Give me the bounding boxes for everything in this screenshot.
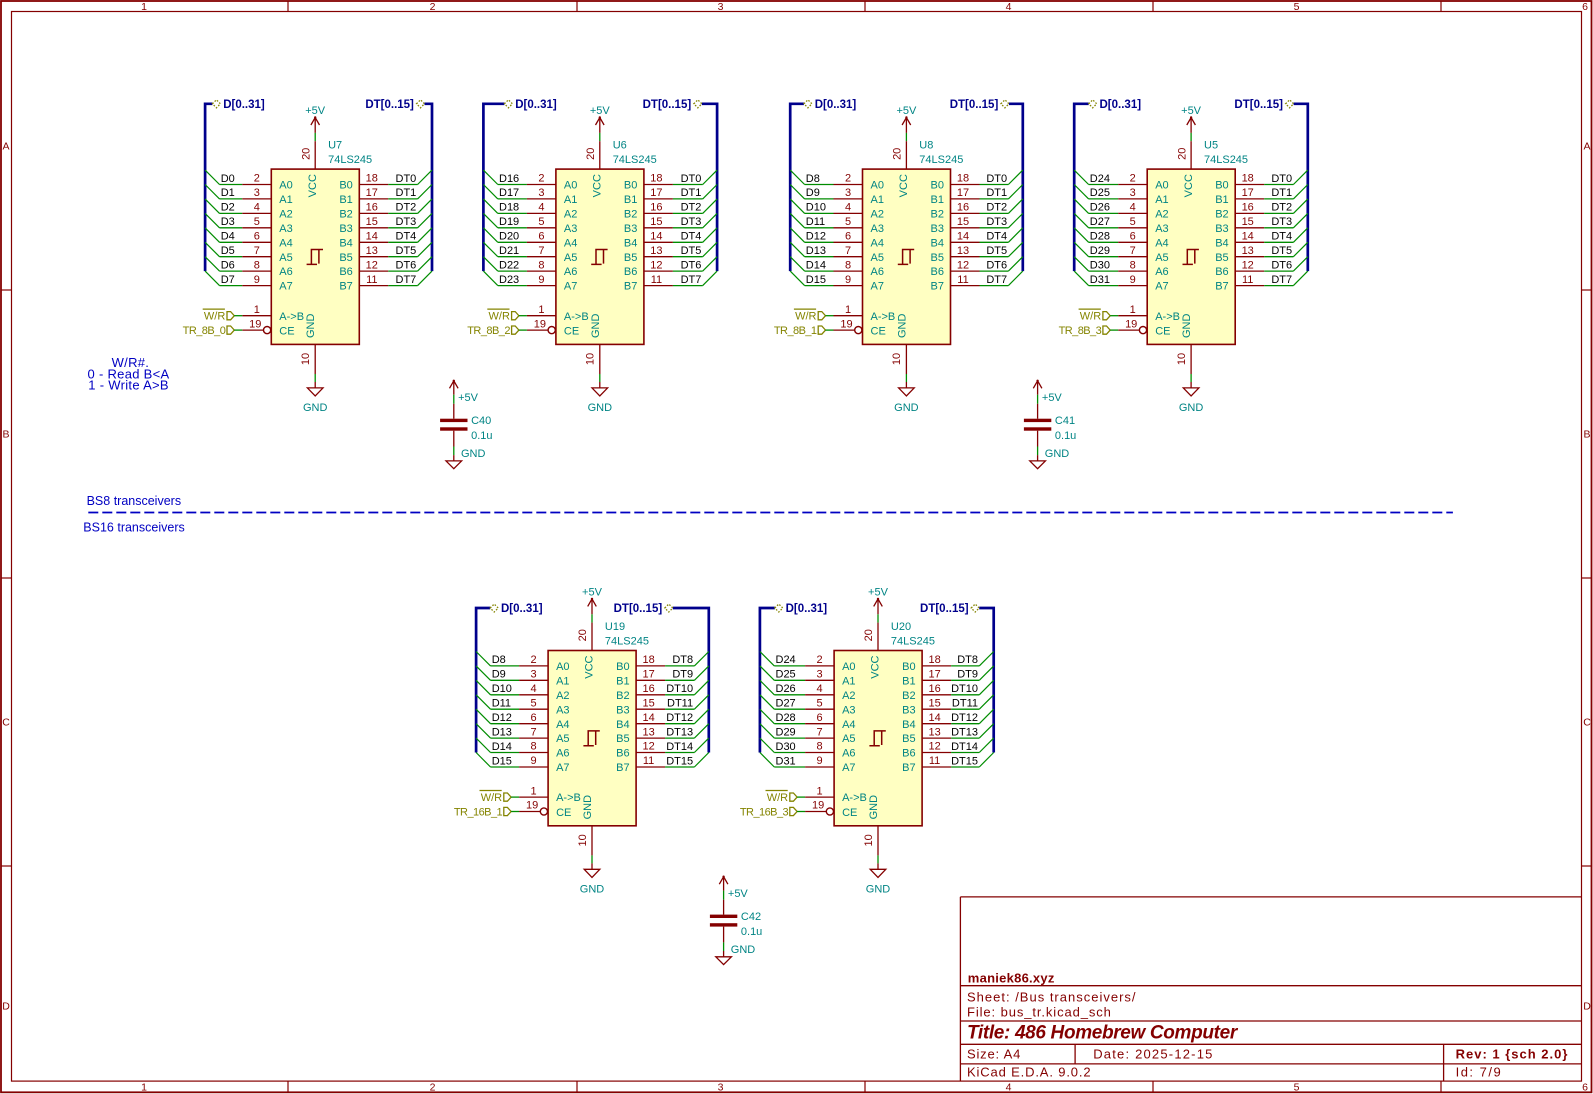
svg-text:19: 19 [534, 318, 546, 330]
svg-text:16: 16 [928, 683, 940, 695]
wire D28 [760, 709, 805, 724]
wire D23 [483, 271, 527, 286]
wire D21 [483, 242, 527, 257]
svg-text:B3: B3 [1215, 223, 1228, 235]
note: BS8 transceivers section label [87, 494, 181, 508]
svg-text:D2: D2 [221, 202, 235, 214]
svg-text:W/R: W/R [489, 311, 510, 323]
svg-text:0.1u: 0.1u [1055, 430, 1076, 442]
wire DT15 [951, 753, 994, 768]
wire D31 [760, 753, 805, 768]
ground GND (U8 pin 10) [891, 344, 918, 414]
pin U20.12 (B6) [902, 741, 951, 760]
svg-text:D15: D15 [806, 274, 826, 286]
separator dashed line [88, 512, 1453, 514]
svg-text:+5V: +5V [1042, 392, 1063, 404]
svg-text:maniek86.xyz: maniek86.xyz [968, 971, 1055, 986]
svg-text:D17: D17 [499, 187, 519, 199]
wire D14 [476, 738, 519, 753]
svg-text:15: 15 [650, 216, 662, 228]
wire D9 [476, 666, 519, 681]
svg-text:16: 16 [366, 202, 378, 214]
pin U8.19 (CE, inverted) [834, 318, 886, 337]
pin U7.13 (B5) [339, 245, 388, 264]
svg-text:A2: A2 [842, 690, 855, 702]
svg-text:B7: B7 [616, 762, 629, 774]
svg-text:A0: A0 [871, 180, 884, 192]
U19 reference and value labels [605, 621, 649, 647]
svg-text:GND: GND [305, 314, 317, 339]
svg-text:B7: B7 [339, 281, 352, 293]
svg-text:+5V: +5V [458, 392, 479, 404]
svg-text:DT3: DT3 [681, 216, 702, 228]
power +5V (C40) [450, 380, 479, 405]
svg-text:11: 11 [651, 274, 662, 286]
svg-text:DT13: DT13 [951, 726, 978, 738]
svg-text:B4: B4 [931, 237, 944, 249]
svg-text:A4: A4 [556, 719, 569, 731]
wire DT1 [673, 185, 717, 200]
svg-text:D0: D0 [221, 173, 235, 185]
wire DT5 [1264, 242, 1308, 257]
svg-text:3: 3 [1130, 187, 1136, 199]
title block size [967, 1047, 1021, 1062]
svg-text:+5V: +5V [728, 888, 749, 900]
svg-text:VCC: VCC [1183, 174, 1195, 197]
svg-text:B4: B4 [902, 719, 915, 731]
svg-text:17: 17 [957, 187, 969, 199]
svg-text:A2: A2 [564, 209, 577, 221]
svg-text:17: 17 [1242, 187, 1254, 199]
pin U20.18 (B0) [902, 654, 951, 673]
svg-text:4: 4 [845, 202, 851, 214]
wire DT3 [673, 213, 717, 228]
svg-text:U7: U7 [328, 140, 342, 152]
svg-text:B0: B0 [624, 180, 637, 192]
svg-text:A6: A6 [842, 748, 855, 760]
svg-text:GND: GND [461, 448, 486, 460]
svg-text:A3: A3 [871, 223, 884, 235]
svg-text:U8: U8 [919, 140, 933, 152]
svg-text:B1: B1 [1215, 194, 1228, 206]
pin U6.15 (B3) [624, 216, 673, 235]
svg-text:0.1u: 0.1u [471, 430, 492, 442]
svg-text:6: 6 [531, 712, 537, 724]
wire D1 [205, 185, 242, 200]
svg-text:DT7: DT7 [396, 274, 417, 286]
svg-text:A->B: A->B [279, 311, 304, 323]
svg-text:3: 3 [845, 187, 851, 199]
wire W/R to U7 pin 1 [234, 315, 242, 317]
hierarchical label TR_8B_2 [467, 325, 519, 337]
svg-text:8: 8 [817, 741, 823, 753]
svg-text:GND: GND [1179, 402, 1204, 414]
svg-text:10: 10 [1176, 353, 1188, 365]
svg-text:12: 12 [366, 259, 378, 271]
wire DT12 [951, 709, 994, 724]
title block date [1093, 1047, 1213, 1062]
pin U20.6 (A4) [805, 712, 855, 731]
U7 reference and value labels [328, 140, 372, 166]
pin U7.18 (B0) [339, 173, 388, 192]
wire D10 [476, 680, 519, 695]
pin U5.15 (B3) [1215, 216, 1264, 235]
svg-text:10: 10 [891, 353, 903, 365]
wire DT0 [980, 170, 1023, 185]
svg-text:19: 19 [812, 800, 824, 812]
pin U8.6 (A4) [834, 231, 884, 250]
svg-text:74LS245: 74LS245 [1204, 154, 1248, 166]
svg-text:D11: D11 [492, 698, 511, 710]
pin U20.5 (A3) [805, 697, 855, 716]
svg-text:B4: B4 [1215, 237, 1228, 249]
wire DT3 [1264, 213, 1308, 228]
svg-text:C40: C40 [471, 415, 491, 427]
svg-text:DT14: DT14 [666, 741, 693, 753]
svg-text:4: 4 [817, 683, 823, 695]
pin U6.12 (B6) [624, 259, 673, 278]
svg-text:DT2: DT2 [1271, 202, 1292, 214]
capacitor C42 0.1u [710, 900, 762, 943]
power +5V (C42) [719, 876, 748, 901]
svg-text:A1: A1 [279, 194, 292, 206]
svg-text:W/R: W/R [481, 792, 502, 804]
svg-text:GND: GND [303, 402, 328, 414]
title block border lines [960, 897, 1581, 1081]
wire TR_8B_1 to U8 pin 19 [826, 329, 834, 331]
pin U6.16 (B2) [624, 202, 673, 221]
svg-text:15: 15 [642, 697, 654, 709]
wire D25 [760, 666, 805, 681]
pin U5.6 (A4) [1118, 231, 1168, 250]
pin U20.11 (B7) [902, 755, 951, 774]
pin U7.14 (B4) [339, 231, 388, 250]
svg-text:Title: 486 Homebrew Computer: Title: 486 Homebrew Computer [967, 1023, 1239, 1044]
svg-text:2: 2 [845, 173, 851, 185]
wire D18 [483, 199, 527, 214]
svg-text:DT5: DT5 [1271, 245, 1292, 257]
svg-text:DT3: DT3 [1271, 216, 1292, 228]
svg-text:A2: A2 [1155, 209, 1168, 221]
svg-text:20: 20 [300, 148, 312, 160]
svg-text:1: 1 [817, 785, 823, 797]
wire +5V to C42 [723, 891, 725, 900]
svg-text:13: 13 [957, 245, 969, 257]
pin U5.7 (A5) [1118, 245, 1168, 264]
svg-text:16: 16 [650, 202, 662, 214]
power +5V (C41) [1033, 380, 1062, 405]
wire D6 [205, 257, 242, 272]
svg-text:20: 20 [1176, 148, 1188, 160]
wire DT7 [388, 271, 432, 286]
pin U19.7 (A5) [519, 726, 569, 745]
svg-text:A4: A4 [1155, 237, 1168, 249]
pin U20.3 (A1) [805, 669, 855, 688]
ground GND (U20 pin 10) [863, 826, 890, 896]
svg-text:1: 1 [845, 304, 851, 316]
svg-text:15: 15 [957, 216, 969, 228]
pin U5.18 (B0) [1215, 173, 1264, 192]
wire TR_8B_2 to U6 pin 19 [519, 329, 527, 331]
svg-text:16: 16 [642, 683, 654, 695]
svg-text:A3: A3 [842, 704, 855, 716]
svg-text:9: 9 [817, 755, 823, 767]
svg-text:A->B: A->B [842, 792, 867, 804]
svg-text:8: 8 [538, 259, 544, 271]
pin U6.14 (B4) [624, 231, 673, 250]
svg-text:DT13: DT13 [666, 726, 693, 738]
svg-text:D27: D27 [776, 698, 796, 710]
svg-text:B3: B3 [624, 223, 637, 235]
svg-text:B2: B2 [339, 209, 352, 221]
pin U19.1 (A-&gt;B dir) [519, 785, 581, 804]
svg-text:B5: B5 [616, 733, 629, 745]
svg-text:1: 1 [538, 304, 544, 316]
ground GND (U6 pin 10) [585, 344, 612, 414]
svg-text:A1: A1 [842, 675, 855, 687]
svg-text:DT2: DT2 [681, 202, 702, 214]
svg-text:D27: D27 [1090, 216, 1110, 228]
pin U6.4 (A2) [527, 202, 577, 221]
pin U19.11 (B7) [616, 755, 665, 774]
note: W/R# usage text [88, 355, 170, 393]
svg-text:B0: B0 [1215, 180, 1228, 192]
pin U20.2 (A0) [805, 654, 855, 673]
svg-text:B2: B2 [616, 690, 629, 702]
svg-text:A->B: A->B [1155, 311, 1180, 323]
svg-text:A0: A0 [564, 180, 577, 192]
power +5V (U19 pin 20 VCC) [577, 586, 602, 650]
hierarchical label W/R (U8) [794, 309, 826, 323]
wire C41 to GND [1037, 447, 1039, 456]
wire D8 [476, 652, 519, 667]
svg-text:D12: D12 [492, 712, 512, 724]
wire D5 [205, 242, 242, 257]
svg-text:TR_8B_0: TR_8B_0 [183, 325, 226, 337]
wire C40 to GND [453, 447, 455, 456]
svg-text:DT0: DT0 [986, 173, 1007, 185]
wire D13 [476, 724, 519, 739]
hierarchical label TR_8B_3 [1059, 325, 1111, 337]
svg-text:B7: B7 [931, 281, 944, 293]
wire D9 [790, 185, 833, 200]
svg-text:D25: D25 [1090, 187, 1110, 199]
svg-text:D[0..31]: D[0..31] [815, 99, 857, 111]
svg-text:2: 2 [254, 173, 260, 185]
svg-text:5: 5 [845, 216, 851, 228]
svg-text:DT14: DT14 [951, 741, 978, 753]
svg-text:14: 14 [366, 231, 378, 243]
wire DT0 [388, 170, 432, 185]
wire D31 [1074, 271, 1118, 286]
svg-text:D6: D6 [221, 259, 235, 271]
bus D[0..31] left of U19 [476, 603, 543, 752]
svg-text:A5: A5 [556, 733, 569, 745]
svg-text:DT15: DT15 [951, 755, 978, 767]
svg-text:11: 11 [957, 274, 968, 286]
wire W/R to U19 pin 1 [511, 796, 519, 798]
wire DT2 [1264, 199, 1308, 214]
svg-text:D10: D10 [492, 683, 512, 695]
pin U7.11 (B7) [339, 274, 388, 293]
svg-text:B6: B6 [902, 748, 915, 760]
svg-text:D21: D21 [499, 245, 519, 257]
wire D11 [476, 695, 519, 710]
svg-text:Size: A4: Size: A4 [967, 1047, 1021, 1062]
svg-text:7: 7 [817, 726, 823, 738]
svg-text:6: 6 [845, 231, 851, 243]
svg-text:D[0..31]: D[0..31] [1100, 99, 1142, 111]
svg-text:20: 20 [585, 148, 597, 160]
wire DT2 [388, 199, 432, 214]
pin U6.3 (A1) [527, 187, 577, 206]
capacitor C41 0.1u [1024, 404, 1076, 447]
svg-text:2: 2 [538, 173, 544, 185]
pin U20.16 (B2) [902, 683, 951, 702]
svg-text:GND: GND [590, 314, 602, 339]
svg-text:TR_8B_2: TR_8B_2 [467, 325, 510, 337]
pin U5.11 (B7) [1215, 274, 1264, 293]
wire D19 [483, 213, 527, 228]
svg-text:D11: D11 [806, 216, 825, 228]
pin U19.6 (A4) [519, 712, 569, 731]
pin U7.2 (A0) [242, 173, 292, 192]
svg-text:VCC: VCC [870, 655, 882, 678]
svg-text:A5: A5 [842, 733, 855, 745]
svg-text:10: 10 [577, 834, 589, 846]
svg-text:11: 11 [1242, 274, 1253, 286]
pin U8.16 (B2) [931, 202, 980, 221]
svg-text:GND: GND [580, 883, 605, 895]
bus D[0..31] left of U5 [1074, 99, 1141, 271]
svg-text:A0: A0 [1155, 180, 1168, 192]
pin U7.12 (B6) [339, 259, 388, 278]
pin U5.1 (A-&gt;B dir) [1118, 304, 1180, 323]
svg-text:B1: B1 [616, 675, 629, 687]
svg-text:DT[0..15]: DT[0..15] [1234, 99, 1283, 111]
svg-text:B5: B5 [902, 733, 915, 745]
svg-text:16: 16 [1242, 202, 1254, 214]
svg-text:TR_16B_3: TR_16B_3 [740, 807, 789, 819]
pin U7.4 (A2) [242, 202, 292, 221]
svg-text:GND: GND [588, 402, 613, 414]
pin U8.8 (A6) [834, 259, 884, 278]
svg-text:7: 7 [531, 726, 537, 738]
power +5V (U20 pin 20 VCC) [863, 586, 888, 650]
svg-text:D14: D14 [492, 741, 512, 753]
svg-text:A0: A0 [279, 180, 292, 192]
svg-text:2: 2 [531, 654, 537, 666]
pin U8.1 (A-&gt;B dir) [834, 304, 896, 323]
svg-text:1: 1 [531, 785, 537, 797]
svg-text:D[0..31]: D[0..31] [515, 99, 557, 111]
pin U6.8 (A6) [527, 259, 577, 278]
wire TR_8B_3 to U5 pin 19 [1110, 329, 1118, 331]
svg-text:15: 15 [1242, 216, 1254, 228]
svg-text:D24: D24 [1090, 173, 1110, 185]
svg-text:6: 6 [1130, 231, 1136, 243]
svg-text:B0: B0 [339, 180, 352, 192]
wire D16 [483, 170, 527, 185]
svg-text:D5: D5 [221, 245, 235, 257]
hierarchical label TR_8B_1 [774, 325, 826, 337]
svg-text:18: 18 [928, 654, 940, 666]
svg-text:4: 4 [254, 202, 260, 214]
pin U7.5 (A3) [242, 216, 292, 235]
pin U5.13 (B5) [1215, 245, 1264, 264]
wire D12 [790, 228, 833, 243]
pin U6.18 (B0) [624, 173, 673, 192]
U8 reference and value labels [919, 140, 963, 166]
svg-text:A->B: A->B [556, 792, 581, 804]
svg-text:DT1: DT1 [681, 187, 702, 199]
wire DT10 [665, 680, 709, 695]
pin U7.17 (B1) [339, 187, 388, 206]
svg-text:B2: B2 [1215, 209, 1228, 221]
svg-text:B6: B6 [339, 266, 352, 278]
svg-text:9: 9 [531, 755, 537, 767]
svg-text:10: 10 [863, 834, 875, 846]
wire DT13 [665, 724, 709, 739]
svg-text:DT1: DT1 [1271, 187, 1292, 199]
svg-text:B3: B3 [902, 704, 915, 716]
svg-text:B3: B3 [339, 223, 352, 235]
svg-text:C: C [1583, 716, 1591, 728]
svg-text:4: 4 [1130, 202, 1136, 214]
hierarchical label W/R (U6) [487, 309, 519, 323]
svg-text:D25: D25 [776, 669, 796, 681]
svg-text:B7: B7 [624, 281, 637, 293]
svg-text:W/R: W/R [795, 311, 816, 323]
svg-text:DT0: DT0 [681, 173, 702, 185]
pin U7.19 (CE, inverted) [242, 318, 294, 337]
svg-text:U19: U19 [605, 621, 625, 633]
svg-text:12: 12 [957, 259, 969, 271]
svg-text:A5: A5 [1155, 252, 1168, 264]
svg-text:CE: CE [556, 807, 571, 819]
pin U5.16 (B2) [1215, 202, 1264, 221]
wire DT8 [951, 652, 994, 667]
svg-text:D28: D28 [776, 712, 796, 724]
power +5V (U7 pin 20 VCC) [300, 105, 325, 169]
svg-text:GND: GND [894, 402, 919, 414]
pin U19.12 (B6) [616, 741, 665, 760]
svg-text:Date: 2025-12-15: Date: 2025-12-15 [1093, 1047, 1213, 1062]
pin U5.3 (A1) [1118, 187, 1168, 206]
svg-text:D14: D14 [806, 259, 826, 271]
svg-text:A3: A3 [279, 223, 292, 235]
wire DT6 [980, 257, 1023, 272]
svg-text:B0: B0 [616, 661, 629, 673]
svg-text:20: 20 [863, 629, 875, 641]
svg-text:U6: U6 [613, 140, 627, 152]
hierarchical label W/R (U7) [203, 309, 235, 323]
pin U8.9 (A7) [834, 274, 884, 293]
wire DT7 [980, 271, 1023, 286]
svg-text:VCC: VCC [584, 655, 596, 678]
wire DT11 [951, 695, 994, 710]
svg-text:A->B: A->B [871, 311, 896, 323]
pin U6.19 (CE, inverted) [527, 318, 579, 337]
svg-text:DT2: DT2 [396, 202, 417, 214]
wire D26 [760, 680, 805, 695]
svg-text:B4: B4 [616, 719, 629, 731]
svg-text:B2: B2 [902, 690, 915, 702]
svg-text:A4: A4 [564, 237, 577, 249]
pin U19.2 (A0) [519, 654, 569, 673]
svg-text:A2: A2 [556, 690, 569, 702]
svg-text:DT5: DT5 [396, 245, 417, 257]
